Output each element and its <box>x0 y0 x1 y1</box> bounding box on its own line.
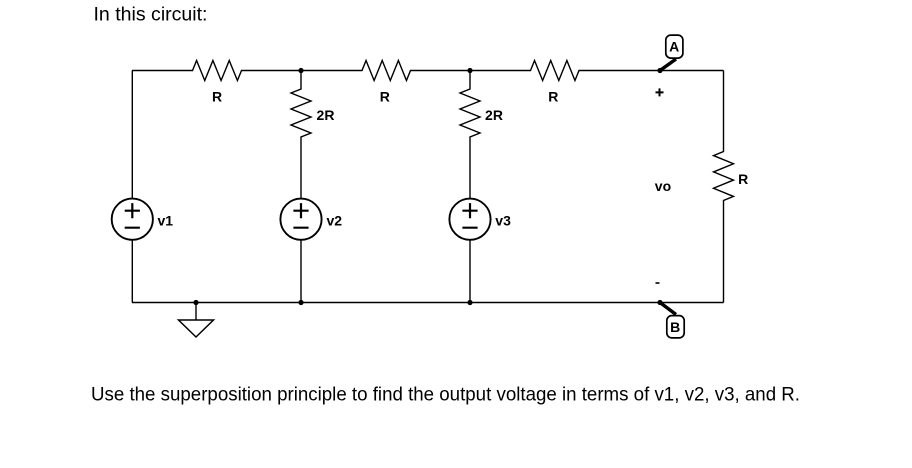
svg-text:v2: v2 <box>327 212 343 228</box>
svg-text:v3: v3 <box>495 212 511 228</box>
svg-text:R: R <box>548 89 558 105</box>
svg-text:In this circuit:: In this circuit: <box>94 4 208 25</box>
svg-text:B: B <box>670 319 680 335</box>
svg-text:R: R <box>738 171 748 187</box>
svg-text:Use the superposition principl: Use the superposition principle to find … <box>91 384 800 405</box>
svg-text:R: R <box>380 89 390 105</box>
svg-text:2R: 2R <box>317 107 335 123</box>
svg-text:2R: 2R <box>485 107 503 123</box>
svg-text:vo: vo <box>655 178 671 194</box>
svg-text:R: R <box>212 89 222 105</box>
svg-text:A: A <box>669 39 679 55</box>
svg-text:v1: v1 <box>158 212 174 228</box>
